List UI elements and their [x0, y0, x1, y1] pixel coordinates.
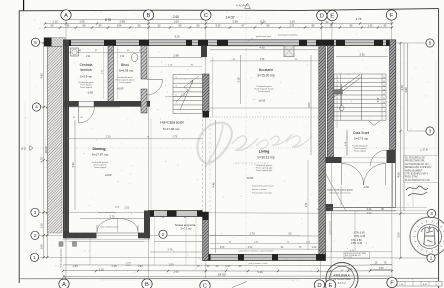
grid circle A bottom [59, 279, 69, 288]
axis line E [331, 21, 332, 278]
svg-text:3: 3 [430, 211, 433, 216]
svg-text:2.02': 2.02' [125, 207, 130, 209]
svg-text:A-A: A-A [236, 4, 241, 8]
axis line 3 right [408, 130, 426, 132]
svg-text:B: B [145, 282, 149, 288]
svg-text:hidroizolatie, strat drenant: hidroizolatie, strat drenant [330, 192, 351, 195]
svg-text:A: A [64, 13, 68, 19]
svg-text:1.98: 1.98 [119, 19, 125, 23]
svg-text:D.I. 4123: D.I. 4123 [345, 257, 352, 259]
svg-text:3.95: 3.95 [404, 87, 408, 93]
grid circle A top [61, 10, 71, 20]
svg-text:F: F [390, 281, 394, 287]
svg-text:2.20: 2.20 [106, 136, 111, 139]
svg-text:14.02': 14.02' [226, 16, 235, 20]
svg-text:1.10: 1.10 [52, 19, 58, 23]
living south interior dim row [210, 248, 325, 250]
svg-text:3: 3 [429, 129, 432, 134]
svg-text:1.47': 1.47' [225, 264, 231, 268]
svg-text:1.05: 1.05 [79, 19, 85, 23]
svg-text:1.94: 1.94 [120, 56, 125, 58]
grid circle 4 left [32, 103, 40, 111]
centrala interior vertical dims [103, 47, 105, 99]
svg-text:1.05: 1.05 [40, 244, 44, 250]
grid circle E bottom [325, 280, 335, 288]
dinning south-east wall vertical [144, 211, 150, 239]
niche shaft below top wall [284, 46, 294, 57]
svg-text:11: 11 [383, 98, 385, 100]
axis line A [65, 21, 67, 279]
terasa dim 2.78 [150, 251, 203, 253]
watermark logo [197, 123, 312, 167]
svg-text:△ S-B: △ S-B [420, 147, 428, 151]
centrala south wall [63, 101, 150, 107]
svg-text:9.20: 9.20 [216, 25, 221, 28]
north exterior wall [63, 40, 392, 46]
grid circle B top [143, 10, 153, 20]
svg-text:1.50: 1.50 [40, 223, 44, 229]
svg-text:+0.00: +0.00 [117, 87, 124, 91]
svg-text:Hol+Casa scarii: Hol+Casa scarii [160, 121, 183, 125]
interior vertical dim 3.90 left [74, 120, 76, 210]
svg-text:3: 3 [34, 210, 37, 215]
svg-text:I M P O R T E X P O R T: I M P O R T E X P O R T [233, 162, 269, 166]
centrala boiler rect [71, 48, 79, 56]
svg-text:PLAN PARTER SC 1:50: PLAN PARTER SC 1:50 [405, 179, 430, 182]
svg-text:A.T.I.C.: A.T.I.C. [338, 281, 347, 285]
stair dark mark [335, 90, 343, 95]
hol area extra dims [149, 66, 203, 68]
svg-text:5: 5 [175, 94, 176, 96]
svg-text:CTN -0.40: CTN -0.40 [351, 242, 363, 245]
grid circle F bottom [387, 277, 397, 287]
svg-text:12: 12 [383, 94, 385, 96]
svg-text:4.44: 4.44 [367, 208, 372, 211]
svg-text:9.20: 9.20 [175, 36, 180, 39]
living west wall [203, 212, 209, 261]
svg-text:profil u aluminiu + sticla: profil u aluminiu + sticla [249, 262, 268, 265]
grid circle E top [327, 10, 337, 20]
terasa edge dim extension right [396, 207, 427, 209]
svg-text:2.08: 2.08 [348, 268, 353, 271]
terasa verde corner block [326, 204, 333, 211]
svg-text:obloane culisante: obloane culisante [252, 188, 267, 191]
dimension line top row3 [45, 26, 392, 28]
svg-text:Living: Living [259, 150, 270, 154]
svg-text:D-D: D-D [21, 147, 26, 151]
svg-text:Birou: Birou [121, 63, 129, 67]
svg-text:DE PROIECTARE: DE PROIECTARE [333, 278, 351, 281]
svg-text:3.98: 3.98 [232, 19, 238, 23]
stair1 cut line [176, 76, 199, 102]
axis line D [321, 21, 322, 278]
stair flight 1 treads [173, 74, 203, 76]
svg-text:1.04: 1.04 [117, 25, 122, 28]
north arrow marker top [245, 3, 251, 8]
svg-text:2.50: 2.50 [248, 247, 253, 249]
bottom right small dims [370, 264, 392, 266]
svg-text:4.00: 4.00 [367, 213, 372, 215]
svg-text:3.98: 3.98 [260, 59, 265, 61]
svg-text:4: 4 [35, 105, 38, 110]
posts below dinning wall [59, 242, 63, 247]
svg-text:S=17.87 mp: S=17.87 mp [92, 153, 109, 157]
grid circle 5 left [31, 38, 39, 46]
svg-text:S=15.20 mp: S=15.20 mp [257, 74, 275, 78]
svg-text:10.50: 10.50 [44, 146, 48, 153]
dimension line top row2 [45, 22, 392, 24]
dimension line bottom row1 [63, 264, 330, 267]
kitchen vertical dim 3.98 right [336, 74, 338, 128]
birou basin ellipse [131, 53, 137, 61]
svg-text:+4.05: +4.05 [125, 262, 131, 264]
E axis wall [327, 46, 333, 157]
kitchen solid dim line [210, 107, 319, 109]
section line A-A vertical [245, 12, 247, 278]
centrala east wall [108, 46, 114, 106]
east wall door arc [370, 150, 387, 166]
svg-text:2.00: 2.00 [397, 232, 401, 238]
svg-text:4.46: 4.46 [211, 182, 215, 188]
main stair center rail line [361, 74, 363, 120]
svg-text:F: F [390, 13, 394, 19]
stair1 wall side line [212, 57, 214, 117]
svg-text:14: 14 [383, 85, 385, 87]
svg-text:±0.00: ±0.00 [259, 99, 266, 103]
svg-text:A: A [62, 282, 66, 288]
svg-text:termica: termica [80, 68, 91, 72]
svg-text:3.15: 3.15 [98, 268, 104, 272]
east wall door block [387, 150, 396, 163]
door opening sill lines terasa verde [342, 157, 386, 159]
grid circle 1 right [427, 254, 435, 262]
svg-text:SC ATELIERUL DE: SC ATELIERUL DE [405, 157, 425, 160]
svg-text:2.98: 2.98 [173, 54, 179, 58]
axis line 3 [40, 212, 427, 213]
grid circle D bottom [314, 280, 324, 288]
svg-text:BENEFICIAR: POPESCU: BENEFICIAR: POPESCU [405, 166, 432, 169]
svg-text:Tavan zugravit: Tavan zugravit [94, 166, 107, 169]
svg-text:Bucatarie: Bucatarie [259, 68, 273, 72]
svg-text:D: D [317, 283, 321, 288]
svg-text:Tavan zugravit: Tavan zugravit [354, 150, 367, 153]
axis line B [148, 21, 150, 279]
svg-text:2: 2 [162, 232, 165, 237]
interior vertical dims center [215, 120, 217, 253]
living south wall piers [203, 254, 211, 260]
round stamp large right [410, 217, 444, 256]
svg-text:Casa Scarii: Casa Scarii [353, 131, 370, 135]
dinning-living dashed boundary [202, 119, 204, 212]
svg-text:1.02': 1.02' [312, 247, 317, 249]
svg-text:3: 3 [175, 86, 176, 88]
stair1 side wall [203, 74, 210, 112]
svg-text:1.00: 1.00 [168, 263, 174, 267]
dimension text 14.52 [63, 275, 392, 277]
main stair diagonal cut lines [333, 75, 360, 95]
svg-text:1.65: 1.65 [72, 264, 78, 268]
stair break V mark [369, 121, 380, 126]
border frame top [19, 9, 439, 11]
grid circle C top [201, 10, 211, 20]
grid circle 3 right upper [426, 127, 434, 135]
right of D wall vertical dim [354, 211, 356, 252]
grid circle C bottom [200, 280, 210, 288]
svg-text:2.60: 2.60 [173, 15, 179, 19]
kitchen-living divider wall D axis [319, 46, 326, 261]
svg-text:16: 16 [383, 77, 385, 79]
svg-text:S=3.8 mp: S=3.8 mp [80, 75, 92, 79]
svg-text:4.50: 4.50 [397, 172, 401, 178]
border frame right [438, 9, 440, 288]
terasa verde north wall piece [326, 157, 342, 163]
section line D-D horizontal [33, 147, 436, 149]
svg-text:B: B [147, 13, 151, 19]
svg-text:60: 60 [184, 217, 186, 219]
dinning double door arcs [97, 218, 118, 231]
stair1 up arrow [180, 80, 193, 110]
dinning interior dim lines [80, 218, 144, 220]
svg-text:3.30: 3.30 [359, 52, 365, 56]
east parapet double line [391, 163, 393, 207]
svg-text:2.75': 2.75' [172, 136, 178, 139]
birou door arc [147, 79, 163, 81]
svg-text:1.92: 1.92 [368, 25, 373, 28]
stamp info box [344, 252, 370, 259]
svg-text:S=30.13 mp: S=30.13 mp [257, 156, 275, 160]
svg-text:2: 2 [34, 233, 37, 238]
bottom left extra faint lines [69, 241, 144, 243]
terasa verde slope diagonal [323, 168, 347, 211]
terasa dim lines [154, 241, 202, 243]
svg-text:pergola lemn peste terasa: pergola lemn peste terasa [252, 185, 275, 188]
dimension line left col [43, 43, 45, 258]
main stair left number column [339, 74, 341, 120]
svg-text:umplutura pamant: umplutura pamant [328, 220, 331, 235]
grid circle 3 left [31, 208, 39, 216]
svg-text:4.90: 4.90 [259, 46, 265, 50]
living south extra dim row [210, 242, 318, 244]
svg-text:S=17.48 mp: S=17.48 mp [163, 127, 180, 131]
svg-text:4.65: 4.65 [40, 73, 44, 79]
axis line 4 [41, 106, 121, 108]
svg-text:AMPLASAMENT:: AMPLASAMENT: [405, 169, 423, 172]
main stair up circle [339, 106, 344, 111]
border frame bottom line [19, 277, 438, 280]
svg-text:FAZA: DTAC: FAZA: DTAC [405, 176, 418, 179]
terasa acoperita north wall [148, 211, 203, 217]
svg-text:C: C [203, 284, 207, 288]
grid circle 1 left [30, 253, 38, 261]
bottom pointer line [232, 282, 247, 288]
signature scribble [406, 186, 428, 196]
top-left corner pier [44, 38, 52, 47]
svg-text:Tavan zugravit: Tavan zugravit [119, 81, 132, 84]
svg-text:5: 5 [34, 40, 37, 45]
svg-text:±0.00: ±0.00 [247, 176, 254, 180]
svg-text:C: C [204, 13, 208, 19]
svg-text:AUTORIZATIE NR 123: AUTORIZATIE NR 123 [405, 163, 429, 166]
svg-text:D: D [320, 14, 324, 20]
wall stub below top wall at C axis [201, 46, 207, 58]
terasa acoperita faint verticals [154, 217, 156, 265]
svg-text:3.90: 3.90 [71, 162, 75, 168]
living south wall [203, 254, 326, 260]
svg-text:3.50: 3.50 [307, 102, 311, 108]
dinning south door opening line [97, 232, 139, 234]
svg-text:8.75: 8.75 [105, 18, 111, 22]
axis line F [391, 21, 394, 277]
hol dim row mid [66, 138, 202, 140]
svg-text:trepte exterioare gresie: trepte exterioare gresie [100, 226, 118, 229]
grid circle 5 right [426, 39, 434, 47]
hol dimension 2.98 [149, 57, 203, 59]
centrala door opening [79, 101, 95, 106]
svg-text:S=17.9 mp: S=17.9 mp [354, 137, 368, 141]
svg-text:PROIECTARE SRL: PROIECTARE SRL [405, 160, 426, 163]
grid circle D top [317, 10, 327, 20]
svg-text:tamplarie lemn stratificat cu: tamplarie lemn stratificat cu geam termo… [239, 250, 274, 253]
border frame left [18, 11, 20, 283]
svg-text:terasa verde peste parter: terasa verde peste parter [327, 189, 353, 192]
svg-text:Centrala: Centrala [80, 63, 93, 67]
svg-text:Tavan zugravit: Tavan zugravit [80, 86, 93, 89]
kitchen dashed beam line [210, 116, 319, 118]
stipple strip top-left [44, 38, 65, 47]
axis line 2 [40, 234, 300, 237]
svg-text:buiandrug precomprimat: buiandrug precomprimat [278, 34, 298, 37]
svg-text:CTN -0.45: CTN -0.45 [354, 235, 366, 238]
right stair vertical dim [346, 130, 348, 156]
scan artifact line top-left [23, 0, 25, 11]
svg-text:1.90: 1.90 [137, 264, 143, 268]
svg-text:finisaj exterior tencuiala: finisaj exterior tencuiala [252, 192, 273, 195]
scan streaks [25, 60, 436, 280]
terasa verde vertical dim line [331, 208, 333, 253]
svg-text:8.30: 8.30 [260, 19, 266, 23]
svg-text:1.50: 1.50 [379, 267, 384, 270]
dinning mid dashed line [150, 119, 152, 210]
dimension line right col [400, 43, 402, 258]
svg-text:4.98: 4.98 [378, 97, 380, 102]
below terasa dim lines [320, 251, 392, 253]
svg-text:9: 9 [384, 106, 385, 108]
east exterior wall [390, 40, 396, 150]
svg-text:5.20: 5.20 [257, 270, 263, 274]
dimension line top row1 [66, 19, 206, 21]
svg-text:1.20: 1.20 [181, 94, 186, 96]
svg-text:90: 90 [80, 117, 82, 119]
svg-text:+0.00: +0.00 [105, 173, 112, 177]
grid circle 3 right [427, 209, 435, 217]
svg-text:terasa bordurata beton: terasa bordurata beton [98, 211, 116, 214]
svg-text:2.70: 2.70 [249, 232, 255, 236]
kitchen top small dims [210, 60, 318, 62]
dimension line bottom row2 [63, 270, 330, 273]
kitchen dimension 4.90 [210, 49, 318, 51]
grid circle F top [386, 10, 396, 20]
svg-text:limita de proprietate: limita de proprietate [60, 248, 63, 268]
round stamp bottom atelierul [326, 263, 358, 288]
svg-text:4.50: 4.50 [220, 247, 225, 249]
svg-text:3.72': 3.72' [289, 25, 295, 28]
grid circle 2 interior [159, 230, 167, 238]
small interior dim rows below top wall [69, 51, 147, 53]
grid circle B bottom [142, 279, 152, 288]
stair room dim 3.30 [336, 56, 388, 58]
west exterior wall [63, 40, 69, 238]
bottom title mini table [397, 281, 442, 286]
svg-text:Tavan zugravit, glet: Tavan zugravit, glet [256, 169, 273, 172]
centrala door arc [79, 107, 95, 124]
svg-text:4.70: 4.70 [40, 157, 44, 163]
main stair treads [334, 73, 386, 75]
svg-text:+2.80: +2.80 [363, 187, 370, 189]
french door arcs terasa verde [342, 164, 364, 186]
svg-text:ATELIERUL: ATELIERUL [333, 273, 350, 277]
hol small dims near stair [165, 96, 202, 98]
terasa verde south edge [326, 207, 396, 209]
right edge annotation text block [405, 157, 432, 182]
svg-text:Dinning: Dinning [92, 147, 105, 151]
svg-text:13: 13 [383, 90, 385, 92]
stair vertical dim line right of D wall [346, 131, 348, 156]
svg-text:90: 90 [162, 217, 164, 219]
svg-text:3.18: 3.18 [236, 77, 240, 83]
svg-text:1.15: 1.15 [111, 264, 117, 268]
svg-text:1: 1 [430, 256, 433, 261]
bottom dim lines right extension [330, 264, 392, 267]
axis line C [205, 21, 207, 279]
kitchen window sill lines [210, 46, 318, 48]
svg-text:4.46: 4.46 [306, 202, 308, 207]
svg-text:Tavan zugravit: Tavan zugravit [258, 90, 271, 93]
svg-text:-0.05: -0.05 [87, 91, 93, 95]
svg-text:1: 1 [33, 255, 36, 260]
dinning threshold lines below south wall [63, 239, 150, 241]
west wall inner line [64, 46, 66, 231]
living right vertical dim 4.46 [307, 160, 309, 250]
axis line 1 [40, 256, 428, 259]
svg-text:14.52': 14.52' [218, 272, 227, 276]
svg-text:2.70: 2.70 [109, 214, 115, 218]
svg-text:STR. EXEMPLU NR 4: STR. EXEMPLU NR 4 [405, 174, 428, 176]
dinning south wall [63, 233, 97, 239]
svg-text:E: E [329, 283, 333, 288]
grid circle 2 left [31, 231, 39, 239]
svg-text:1.20: 1.20 [289, 19, 295, 23]
svg-text:1: 1 [175, 77, 176, 79]
axis line 5 [41, 42, 428, 45]
svg-text:15: 15 [383, 81, 385, 83]
birou east wall lower [141, 89, 147, 113]
north wall piers [63, 40, 71, 46]
exterior ramp hatch band [48, 47, 63, 234]
svg-text:5: 5 [429, 41, 432, 46]
svg-text:2.75: 2.75 [356, 17, 362, 21]
svg-text:10: 10 [383, 102, 385, 104]
birou east wall upper [141, 46, 147, 79]
svg-text:1.00: 1.00 [173, 19, 179, 23]
svg-text:Terasa acoperita: Terasa acoperita [175, 223, 196, 227]
svg-text:1.94: 1.94 [86, 56, 91, 58]
svg-text:2.60: 2.60 [173, 270, 179, 274]
svg-text:E: E [330, 14, 334, 20]
svg-text:20: 20 [73, 117, 75, 119]
svg-text:-4.10: -4.10 [126, 265, 132, 267]
svg-text:2.78: 2.78 [168, 249, 173, 252]
svg-text:7: 7 [175, 103, 176, 105]
